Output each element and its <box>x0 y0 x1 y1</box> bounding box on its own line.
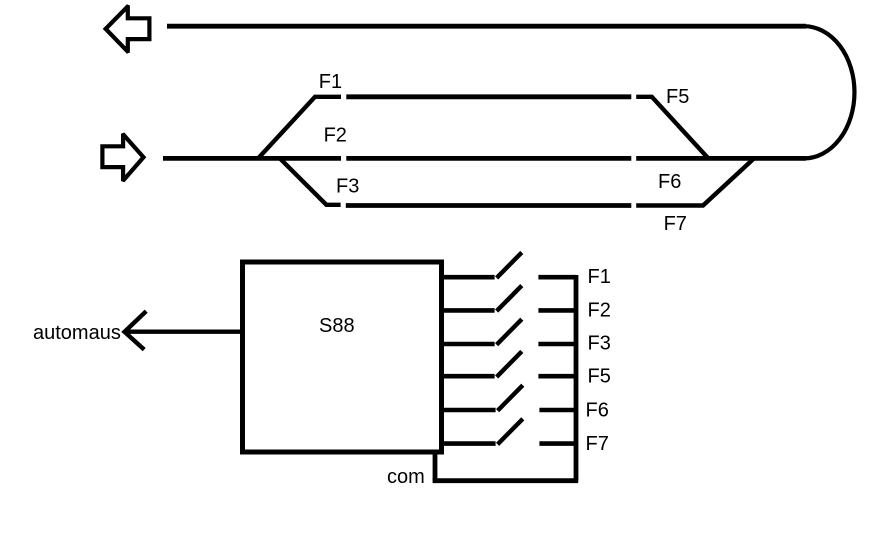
com riser wire <box>433 453 438 481</box>
svg-text:F2: F2 <box>324 125 347 147</box>
com wire <box>433 478 579 483</box>
switch F3 blade <box>497 319 522 345</box>
switch F1 contact wire <box>538 275 576 280</box>
lower siding entry wire <box>280 159 341 205</box>
svg-text:F7: F7 <box>664 213 687 235</box>
sensor bus wire <box>574 275 579 481</box>
svg-text:F1: F1 <box>319 71 342 93</box>
siding F6 F7 exit wire <box>636 158 755 206</box>
svg-text:S88: S88 <box>319 315 355 337</box>
svg-text:automaus: automaus <box>33 322 121 344</box>
switch F5 contact wire <box>538 374 576 379</box>
switch F3 stub <box>442 342 495 347</box>
switch F5 stub <box>442 374 495 379</box>
switch F7 stub <box>443 441 496 446</box>
top return wire <box>167 24 806 29</box>
upper siding entry switch wire <box>258 97 341 159</box>
svg-text:F7: F7 <box>586 433 609 455</box>
S88 module box <box>243 262 442 452</box>
svg-text:F3: F3 <box>588 333 611 355</box>
switch F1 blade <box>497 252 522 278</box>
right direction arrow <box>100 133 146 183</box>
switch F5 blade <box>497 351 522 377</box>
main wire middle segment F2 <box>346 156 631 161</box>
svg-text:F1: F1 <box>588 266 611 288</box>
svg-text:F6: F6 <box>586 400 609 422</box>
svg-text:F3: F3 <box>336 176 359 198</box>
switch F6 contact wire <box>539 408 576 413</box>
switch F6 blade <box>498 385 523 411</box>
switch F7 contact wire <box>539 441 576 446</box>
siding wire F1 <box>346 94 631 99</box>
automaus arrow wire <box>125 330 240 334</box>
loop curve <box>804 26 854 158</box>
automaus arrow head <box>125 311 147 349</box>
siding wire F3 <box>346 203 632 208</box>
svg-text:F5: F5 <box>666 86 689 108</box>
switch F2 contact wire <box>538 308 576 313</box>
switch F2 blade <box>497 286 522 312</box>
svg-text:F5: F5 <box>588 366 611 388</box>
left direction arrow <box>103 4 152 53</box>
main wire left segment <box>163 156 341 161</box>
siding F5 exit wire <box>636 97 707 158</box>
svg-text:com: com <box>387 466 425 488</box>
svg-text:F6: F6 <box>658 171 681 193</box>
main wire right segment <box>636 156 806 161</box>
switch F2 stub <box>442 308 495 313</box>
switch F6 stub <box>443 408 496 413</box>
svg-text:F2: F2 <box>588 300 611 322</box>
switch F1 stub <box>442 275 495 280</box>
switch F7 blade <box>498 419 523 445</box>
switch F3 contact wire <box>538 342 576 347</box>
